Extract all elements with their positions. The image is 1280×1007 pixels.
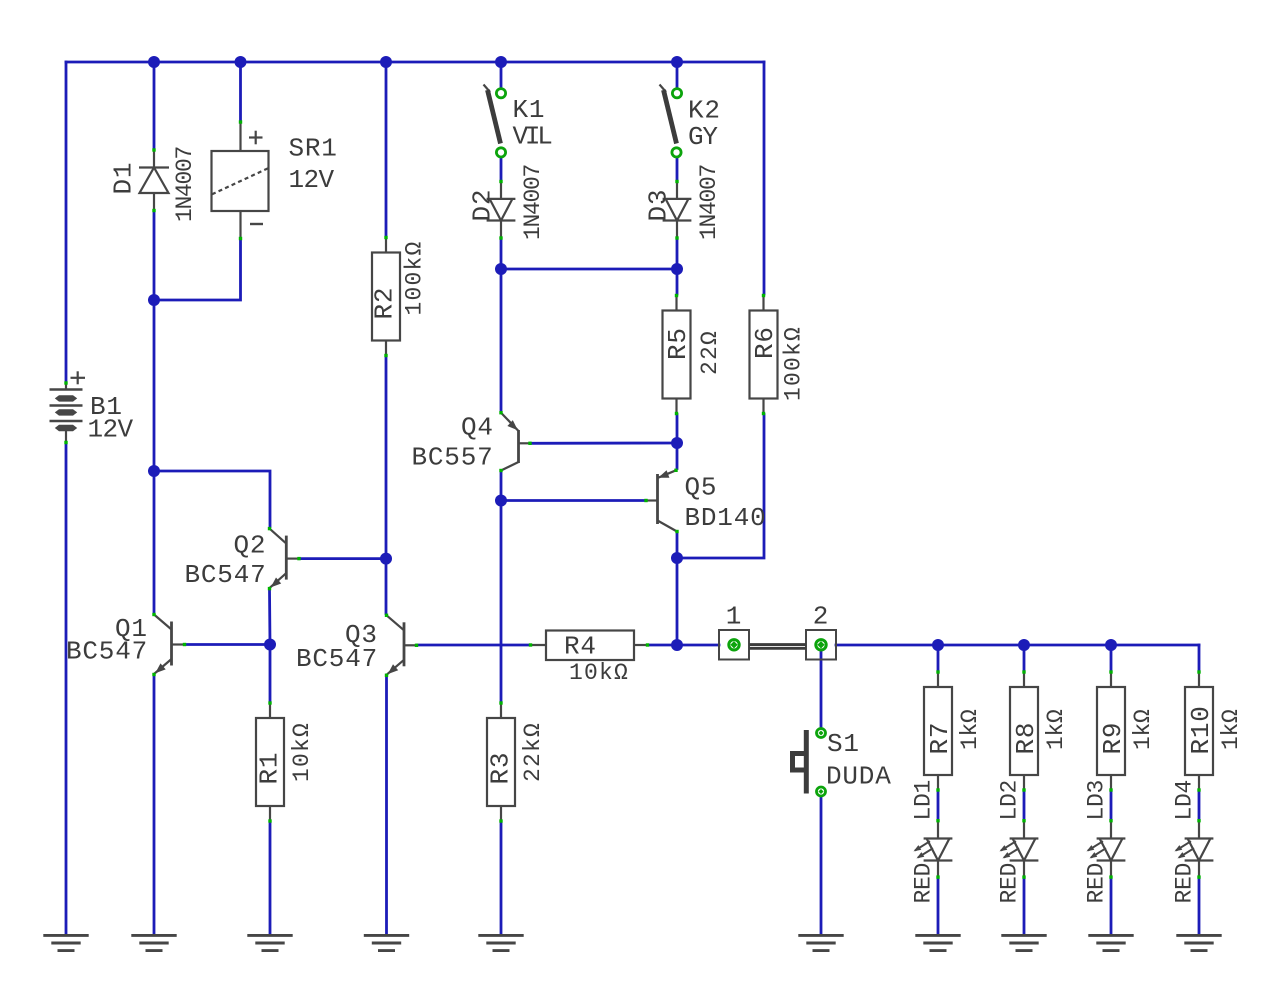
label Q3 name xyxy=(345,620,378,650)
label Q5 value BD140 xyxy=(685,503,767,533)
svg-text:R6: R6 xyxy=(750,326,780,359)
wire right rail to R6 xyxy=(763,62,766,294)
label LD2 name xyxy=(997,780,1023,821)
wire Q2 emitter down to R1 xyxy=(268,590,271,702)
label R3 name xyxy=(486,752,516,785)
LED LD4 xyxy=(1175,819,1214,879)
svg-text:Q4: Q4 xyxy=(461,413,494,443)
junction bus R7 xyxy=(932,639,944,651)
wire LD4 to ground xyxy=(1198,879,1201,935)
ground R3 xyxy=(478,935,523,950)
wire D2 bottom to Q4 emitter xyxy=(500,240,503,412)
label K1 name xyxy=(513,95,546,125)
resistor R2 xyxy=(372,236,400,357)
svg-text:BC547: BC547 xyxy=(185,560,267,590)
label LD4 name xyxy=(1172,780,1198,821)
label R6 value 100k xyxy=(781,326,807,401)
wire R8 branch xyxy=(1023,645,1026,670)
pushbutton S1 xyxy=(793,729,826,797)
svg-text:R1: R1 xyxy=(255,752,285,785)
svg-text:D2: D2 xyxy=(468,189,498,222)
wire connector 2 to LED bus xyxy=(836,644,1199,647)
label D2 value 1N4007 xyxy=(520,165,546,240)
junction top bus D1 xyxy=(148,56,160,68)
svg-text:R3: R3 xyxy=(486,752,516,785)
wire S1 bottom to ground xyxy=(820,797,823,934)
LED LD3 xyxy=(1087,819,1126,879)
ground S1 xyxy=(798,935,843,950)
junction R5 Q4 base Q5 emitter xyxy=(671,437,683,449)
wire R5 bottom to node xyxy=(676,415,679,444)
svg-text:K1: K1 xyxy=(513,95,546,125)
svg-text:LD3: LD3 xyxy=(1084,780,1110,821)
junction Q4 collector Q5 base xyxy=(495,495,507,507)
svg-text:RED: RED xyxy=(911,863,937,904)
label Q5 name xyxy=(685,473,718,503)
transistor Q1 xyxy=(152,613,186,676)
wire Q4 collector to node xyxy=(500,472,503,501)
svg-text:VIL: VIL xyxy=(513,122,552,152)
junction D3 bottom xyxy=(671,263,683,275)
junction R4 bus xyxy=(671,639,683,651)
wire R1 bottom to ground xyxy=(269,823,272,935)
switch K1 xyxy=(484,85,506,157)
svg-text:1N4007: 1N4007 xyxy=(696,165,722,240)
svg-text:1N4007: 1N4007 xyxy=(520,165,546,240)
svg-text:12V: 12V xyxy=(88,415,134,445)
wire Q4 collector node to R3 xyxy=(500,501,503,702)
wire Q5 emitter link xyxy=(676,443,679,469)
resistor R8 xyxy=(1010,670,1038,791)
label R7 name xyxy=(925,722,955,755)
wire R8 to LD2 xyxy=(1023,792,1026,819)
label R1 value 10k xyxy=(289,722,315,782)
battery B1 xyxy=(50,371,86,444)
label D3 name xyxy=(644,189,674,222)
wire R10 to LD4 xyxy=(1198,792,1201,819)
label pin number 2 xyxy=(813,602,829,632)
label R10 name xyxy=(1186,705,1216,754)
wire Q5 collector down xyxy=(676,533,679,645)
junction Q5 collector R6 xyxy=(671,552,683,564)
wire node D2-D3 link xyxy=(501,268,677,271)
resistor R3 xyxy=(487,701,515,822)
wire SR1 top pin xyxy=(239,62,242,121)
label R9 value 1k xyxy=(1130,709,1156,750)
wire Q3 emitter to ground xyxy=(385,675,388,934)
label D2 name xyxy=(468,189,498,222)
resistor R6 xyxy=(750,294,778,415)
junction bus R9 xyxy=(1105,639,1117,651)
wire Q2 base to R2 rail xyxy=(301,557,387,560)
svg-text:RED: RED xyxy=(1084,863,1110,904)
label R8 value 1k xyxy=(1043,709,1069,750)
ground B1 xyxy=(43,935,88,950)
wire S1 top xyxy=(820,650,823,727)
svg-text:R9: R9 xyxy=(1098,722,1128,755)
svg-text:R10: R10 xyxy=(1186,705,1216,754)
junction R2 Q2 base xyxy=(380,553,392,565)
ground LD4 xyxy=(1176,935,1221,950)
wire LD2 to ground xyxy=(1023,879,1026,935)
label LD1 name xyxy=(911,780,937,821)
label Q1 value BC547 xyxy=(66,637,148,667)
svg-text:2: 2 xyxy=(813,602,829,632)
label S1 name xyxy=(827,729,860,759)
wire K1 top xyxy=(500,62,503,88)
connector pin 1 xyxy=(719,630,749,660)
svg-text:Q5: Q5 xyxy=(685,473,718,503)
LED LD1 xyxy=(914,819,953,879)
label K2 value GY xyxy=(688,122,718,152)
svg-text:Q2: Q2 xyxy=(234,531,267,561)
label R10 value 1k xyxy=(1218,709,1244,750)
svg-text:22kΩ: 22kΩ xyxy=(520,722,546,782)
svg-text:LD4: LD4 xyxy=(1172,780,1198,821)
label LD1 value RED xyxy=(911,863,937,904)
ground R1 xyxy=(247,935,292,950)
connector jumper bar xyxy=(749,645,806,649)
wire SR1 bottom to D1 rail xyxy=(154,240,241,301)
wire R9 branch xyxy=(1110,645,1113,670)
label LD3 name xyxy=(1084,780,1110,821)
resistor R5 xyxy=(663,294,691,415)
svg-text:1kΩ: 1kΩ xyxy=(1043,709,1069,750)
label R2 name xyxy=(370,287,400,320)
svg-text:1kΩ: 1kΩ xyxy=(1130,709,1156,750)
svg-text:22Ω: 22Ω xyxy=(697,330,723,375)
transistor Q2 xyxy=(268,527,301,590)
resistor R10 xyxy=(1185,670,1213,791)
connector pin 2 xyxy=(806,630,836,660)
svg-text:1: 1 xyxy=(726,602,742,632)
label LD4 value RED xyxy=(1172,863,1198,904)
wire R4 to connector xyxy=(649,644,720,647)
svg-text:RED: RED xyxy=(997,863,1023,904)
switch K2 xyxy=(660,85,682,157)
wire K2 to D3 xyxy=(676,158,679,181)
ground LD2 xyxy=(1001,935,1046,950)
label R2 value 100k xyxy=(402,240,428,315)
label R5 name xyxy=(663,327,693,360)
svg-text:R2: R2 xyxy=(370,287,400,320)
wire LD1 to ground xyxy=(937,879,940,935)
label LD2 value RED xyxy=(997,863,1023,904)
label D1 name xyxy=(109,162,139,195)
wire node base Q2 branch xyxy=(154,471,270,527)
wire top supply bus xyxy=(66,61,764,64)
ground Q3 xyxy=(364,935,409,950)
svg-text:100kΩ: 100kΩ xyxy=(781,326,807,401)
svg-text:S1: S1 xyxy=(827,729,860,759)
relay coil SR1 xyxy=(212,120,269,240)
svg-text:12V: 12V xyxy=(289,165,335,195)
junction bus R8 xyxy=(1018,639,1030,651)
wire R2 bottom to Q3 collector xyxy=(385,357,388,614)
label D3 value 1N4007 xyxy=(696,165,722,240)
transistor Q5 xyxy=(644,469,678,534)
label K1 value VIL xyxy=(513,122,552,152)
resistor R1 xyxy=(256,701,284,822)
LED LD2 xyxy=(1000,819,1039,879)
label Q4 value BC557 xyxy=(412,443,494,473)
wire R2 top xyxy=(385,62,388,237)
svg-text:BC547: BC547 xyxy=(296,644,378,674)
label B1 name xyxy=(90,392,123,422)
label SR1 value 12V xyxy=(289,165,335,195)
junction top bus K2 xyxy=(671,56,683,68)
wire Q1 base to junction xyxy=(186,643,271,646)
svg-text:1kΩ: 1kΩ xyxy=(957,709,983,750)
wire R7 to LD1 xyxy=(937,792,940,819)
ground LD3 xyxy=(1088,935,1133,950)
wire D3 bottom to R5 xyxy=(676,240,679,295)
wire R3 bottom to ground xyxy=(500,823,503,935)
wire R9 to LD3 xyxy=(1110,792,1113,819)
wire R7 branch xyxy=(937,645,940,670)
wire Q1 emitter to ground xyxy=(153,675,156,934)
junction top bus K1 xyxy=(495,56,507,68)
label R4 name xyxy=(564,632,597,662)
wire LD3 to ground xyxy=(1110,879,1113,935)
svg-text:SR1: SR1 xyxy=(289,134,338,164)
junction D1 rail Q2 branch xyxy=(148,465,160,477)
diode D1 xyxy=(139,148,169,212)
label Q2 value BC547 xyxy=(185,560,267,590)
wire Q4 base to node xyxy=(532,442,678,445)
svg-text:R8: R8 xyxy=(1011,722,1041,755)
svg-text:RED: RED xyxy=(1172,863,1198,904)
label K2 name xyxy=(688,96,721,126)
wire D1 bottom to Q1 collector xyxy=(153,212,156,613)
svg-text:R7: R7 xyxy=(925,722,955,755)
svg-text:R4: R4 xyxy=(564,632,597,662)
svg-text:K2: K2 xyxy=(688,96,721,126)
svg-text:D1: D1 xyxy=(109,162,139,195)
svg-text:1N4007: 1N4007 xyxy=(172,147,198,222)
label R5 value 22R xyxy=(697,330,723,375)
transistor Q3 xyxy=(385,614,418,677)
svg-text:100kΩ: 100kΩ xyxy=(402,240,428,315)
wire K1 to D2 xyxy=(500,158,503,181)
junction D2 bottom xyxy=(495,263,507,275)
label R6 name xyxy=(750,326,780,359)
wire LED bus down to R10 xyxy=(1198,645,1201,670)
svg-text:D3: D3 xyxy=(644,189,674,222)
label R1 name xyxy=(255,752,285,785)
label LD3 value RED xyxy=(1084,863,1110,904)
label R7 value 1k xyxy=(957,709,983,750)
diode D2 xyxy=(487,180,516,240)
wire B1 bottom to ground xyxy=(65,444,68,935)
label R8 name xyxy=(1011,722,1041,755)
junction Q1 base R1 xyxy=(264,639,276,651)
svg-text:10kΩ: 10kΩ xyxy=(569,660,629,686)
resistor R9 xyxy=(1097,670,1125,791)
svg-text:GY: GY xyxy=(688,122,718,152)
label R9 name xyxy=(1098,722,1128,755)
svg-text:LD1: LD1 xyxy=(911,780,937,821)
ground Q1 xyxy=(131,935,176,950)
label Q1 name xyxy=(115,614,148,644)
wire R6 bottom to Q5 collector rail xyxy=(677,415,764,559)
svg-text:1kΩ: 1kΩ xyxy=(1218,709,1244,750)
junction top bus R2 xyxy=(380,56,392,68)
resistor R4 xyxy=(529,631,649,661)
wire Q3 base to R4 xyxy=(418,644,530,647)
label S1 value DUDA xyxy=(826,762,892,792)
label B1 value 12V xyxy=(88,415,134,445)
resistor R7 xyxy=(924,670,952,791)
label Q3 value BC547 xyxy=(296,644,378,674)
wire left rail B1 top xyxy=(65,62,68,382)
label Q4 name xyxy=(461,413,494,443)
label pin number 1 xyxy=(726,602,742,632)
label D1 value 1N4007 xyxy=(172,147,198,222)
junction top bus SR1 xyxy=(235,56,247,68)
svg-text:R5: R5 xyxy=(663,327,693,360)
svg-text:DUDA: DUDA xyxy=(826,762,892,792)
svg-text:LD2: LD2 xyxy=(997,780,1023,821)
wire Q5 base link xyxy=(501,499,645,502)
label R4 value 10k xyxy=(569,660,629,686)
label Q2 name xyxy=(234,531,267,561)
label R3 value 22k xyxy=(520,722,546,782)
diode D3 xyxy=(663,180,692,240)
wire K2 top xyxy=(676,62,679,88)
wire D1 top xyxy=(153,62,156,149)
svg-text:BD140: BD140 xyxy=(685,503,767,533)
svg-text:BC557: BC557 xyxy=(412,443,494,473)
svg-text:10kΩ: 10kΩ xyxy=(289,722,315,782)
junction D1-SR1 xyxy=(148,294,160,306)
transistor Q4 xyxy=(499,411,531,472)
label SR1 name xyxy=(289,134,338,164)
svg-text:BC547: BC547 xyxy=(66,637,148,667)
ground LD1 xyxy=(915,935,960,950)
